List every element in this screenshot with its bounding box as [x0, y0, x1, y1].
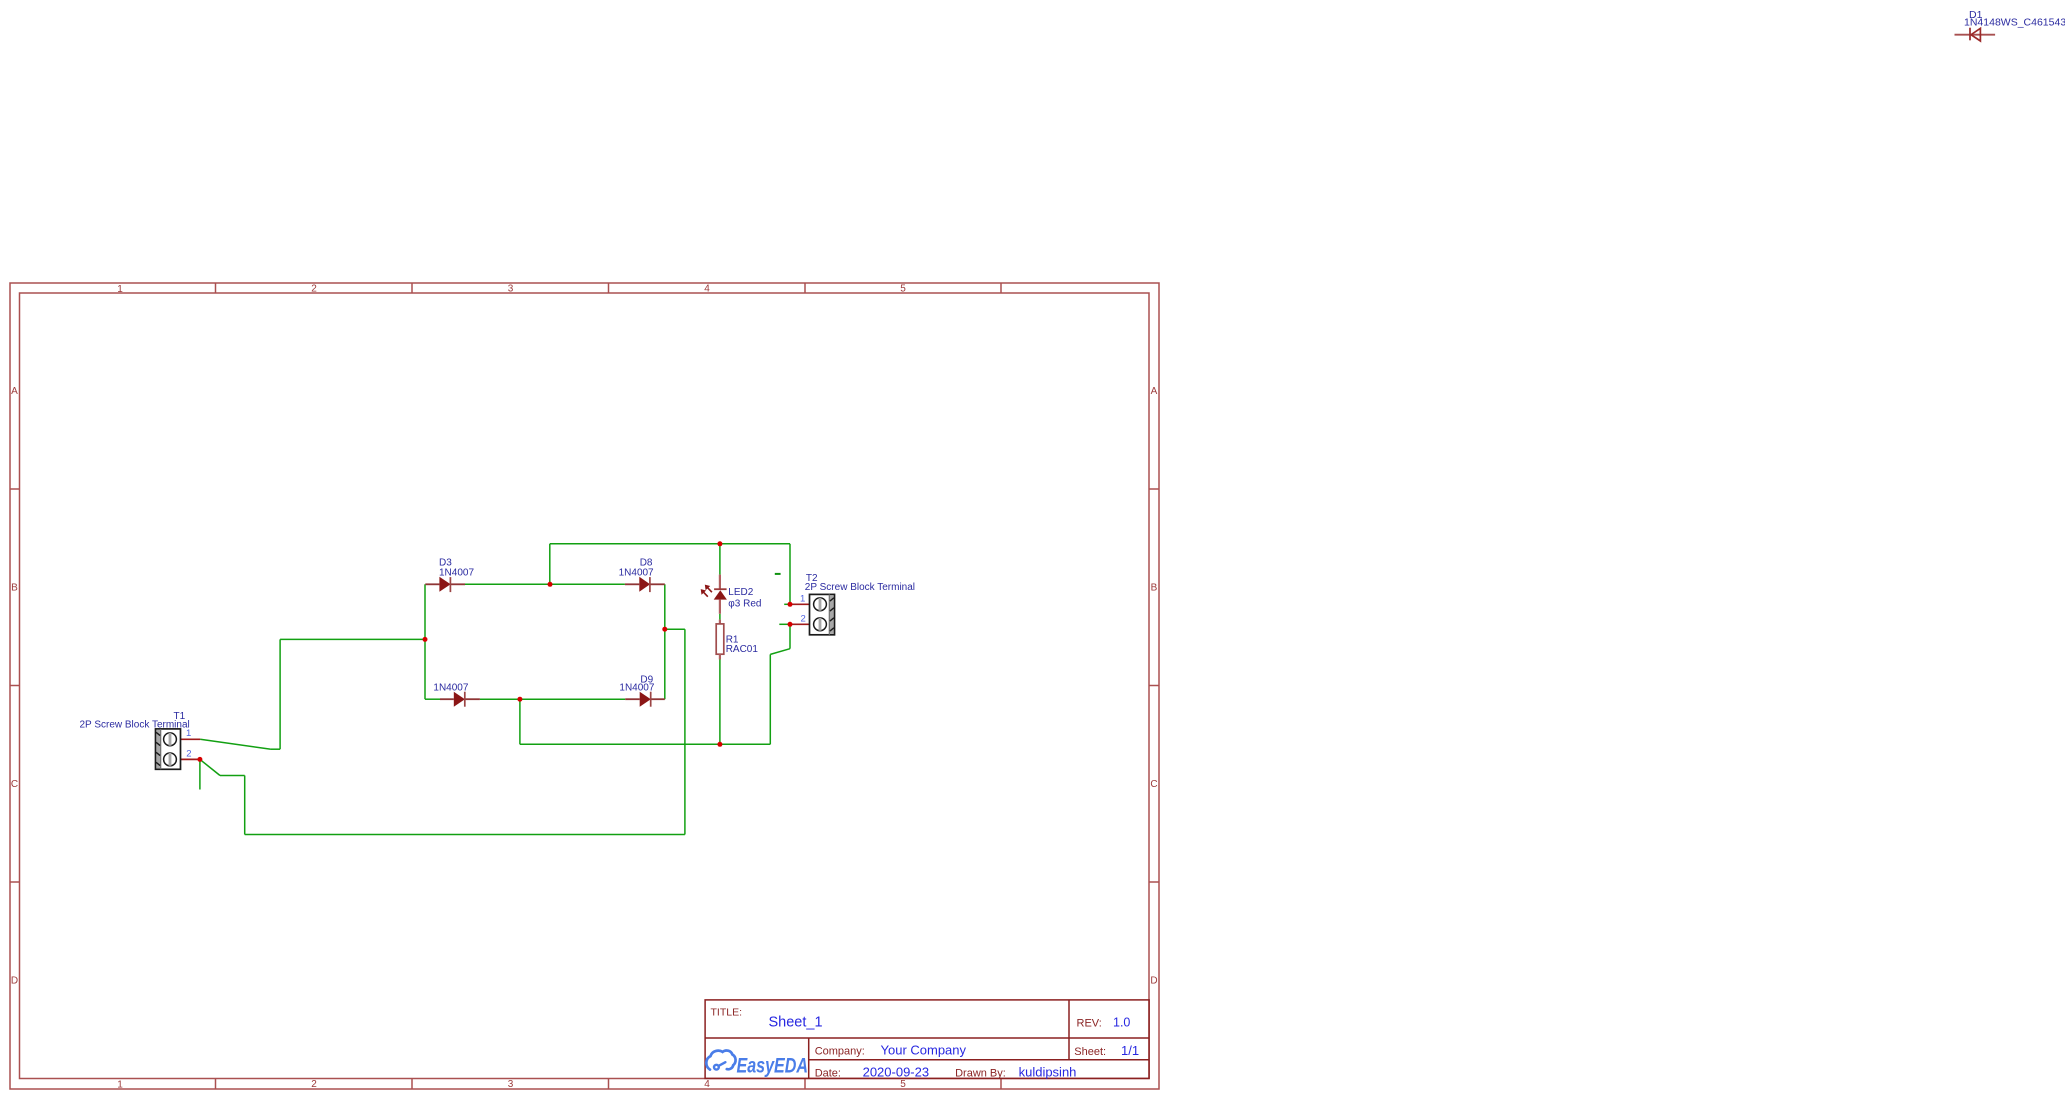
svg-text:5: 5	[900, 284, 906, 295]
svg-text:B: B	[1151, 583, 1158, 594]
svg-text:D: D	[1150, 976, 1157, 987]
svg-text:4: 4	[704, 284, 710, 295]
label D9	[619, 675, 654, 694]
wire into left node	[280, 638, 425, 640]
diode D8	[625, 577, 665, 592]
wire T1 pin1 to left vertical	[200, 639, 280, 749]
svg-text:RAC01: RAC01	[726, 644, 759, 655]
resistor R1	[716, 620, 724, 660]
diode D9	[625, 692, 665, 707]
diode D3	[425, 577, 465, 592]
wire bottom long rail	[200, 759, 685, 834]
label D3	[439, 558, 474, 579]
svg-text:LED2: LED2	[728, 587, 753, 598]
svg-text:1: 1	[117, 1080, 123, 1091]
LED2	[701, 575, 727, 614]
label R1	[726, 635, 759, 655]
svg-text:1N4007: 1N4007	[433, 683, 468, 694]
svg-text:kuldipsinh: kuldipsinh	[1019, 1065, 1077, 1080]
svg-text:Sheet:: Sheet:	[1074, 1046, 1106, 1058]
svg-text:1N4007: 1N4007	[439, 568, 474, 579]
wire T1 pin2 stub	[199, 759, 201, 789]
wire D8 cathode vertical	[664, 584, 666, 699]
wire right drop to T2 pin1	[784, 544, 790, 605]
diode D1 top right	[1955, 28, 1996, 41]
net stub minus mark	[775, 573, 781, 575]
wire top rail	[550, 543, 790, 545]
svg-text:3: 3	[508, 284, 514, 295]
label T2	[805, 573, 915, 593]
svg-text:1N4007: 1N4007	[619, 568, 654, 579]
junction nodes	[197, 541, 792, 762]
svg-text:TITLE:: TITLE:	[711, 1006, 743, 1018]
diode bottom-left 1N4007	[440, 692, 480, 707]
svg-text:2020-09-23: 2020-09-23	[863, 1065, 930, 1080]
label LED2	[728, 587, 761, 609]
terminal T1	[156, 729, 201, 769]
svg-text:2P Screw Block Terminal: 2P Screw Block Terminal	[805, 582, 915, 593]
wire LED to R1	[719, 614, 721, 620]
svg-text:1/1: 1/1	[1121, 1043, 1139, 1058]
svg-text:2: 2	[186, 748, 191, 759]
wire D9 row	[425, 698, 625, 700]
titleblock	[705, 1000, 1149, 1080]
svg-text:2: 2	[311, 1079, 317, 1090]
pin numbers T2	[800, 593, 806, 624]
sheet border frame	[10, 283, 1159, 1089]
svg-text:Sheet_1: Sheet_1	[769, 1014, 823, 1030]
svg-text:1: 1	[117, 284, 123, 295]
svg-text:5: 5	[900, 1079, 906, 1090]
easyeda logo cloud	[706, 1050, 735, 1069]
svg-text:1: 1	[186, 728, 191, 739]
label D1	[1964, 9, 2065, 28]
label D8	[619, 558, 654, 579]
svg-text:Company:: Company:	[815, 1046, 865, 1058]
svg-text:EasyEDA: EasyEDA	[737, 1054, 809, 1077]
terminal T2	[790, 594, 835, 634]
svg-text:A: A	[11, 386, 18, 397]
wire top rail to D3-D8 row	[549, 544, 551, 585]
svg-text:2: 2	[311, 284, 317, 295]
wire bottom mid rail	[520, 624, 790, 744]
svg-text:REV:: REV:	[1077, 1017, 1102, 1029]
svg-text:φ3 Red: φ3 Red	[728, 599, 761, 610]
svg-text:3: 3	[508, 1079, 514, 1090]
label bottom-left diode	[433, 683, 468, 694]
svg-text:D: D	[11, 976, 18, 987]
svg-text:C: C	[11, 779, 18, 790]
wire R1 to bottom rail	[719, 660, 721, 745]
pin numbers T1	[186, 728, 192, 759]
svg-text:Date:: Date:	[815, 1068, 841, 1080]
svg-text:1.0: 1.0	[1113, 1015, 1130, 1029]
frame grid labels	[11, 284, 1158, 1091]
svg-text:2: 2	[801, 613, 806, 624]
svg-text:1: 1	[800, 593, 805, 604]
wire T2 pin2 stub	[779, 623, 790, 625]
svg-text:1N4007: 1N4007	[619, 683, 654, 694]
svg-text:A: A	[1151, 386, 1158, 397]
svg-text:2P Screw Block Terminal: 2P Screw Block Terminal	[80, 720, 190, 731]
svg-text:Drawn By:: Drawn By:	[955, 1068, 1006, 1080]
wire D3 to D8 row	[465, 583, 625, 585]
wire LED top	[719, 544, 721, 575]
svg-text:Your Company: Your Company	[881, 1043, 967, 1058]
label T1	[80, 711, 190, 731]
titleblock borders	[705, 1000, 1149, 1079]
wire node to long drop	[665, 629, 685, 834]
svg-text:B: B	[11, 583, 18, 594]
svg-text:C: C	[1150, 779, 1157, 790]
svg-text:1N4148WS_C461543: 1N4148WS_C461543	[1964, 17, 2065, 29]
wire left vertical	[424, 584, 426, 699]
svg-text:4: 4	[704, 1079, 710, 1090]
